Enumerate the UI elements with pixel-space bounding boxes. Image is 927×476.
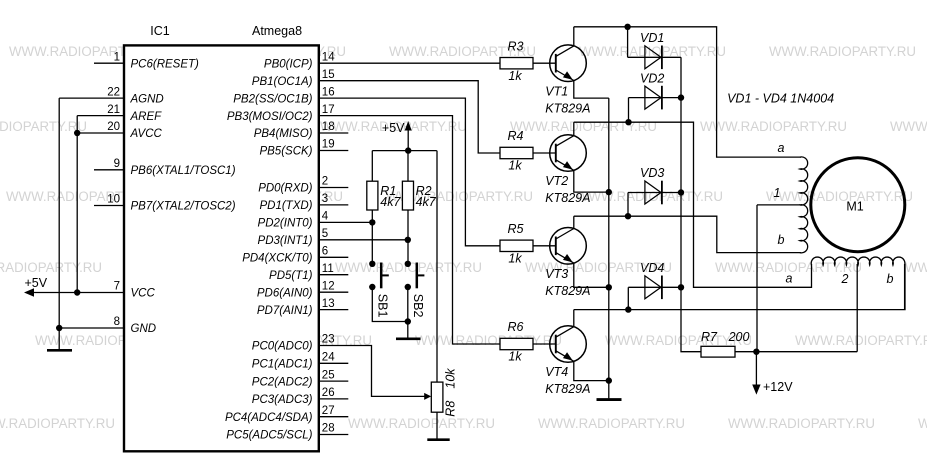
svg-text:11: 11 — [322, 263, 334, 275]
svg-text:27: 27 — [322, 405, 335, 417]
svg-text:25: 25 — [322, 369, 335, 381]
svg-text:14: 14 — [322, 51, 335, 63]
svg-text:17: 17 — [322, 104, 335, 116]
svg-text:26: 26 — [322, 387, 335, 399]
svg-text:R8: R8 — [443, 401, 457, 417]
svg-text:KT829A: KT829A — [545, 382, 590, 396]
svg-text:1: 1 — [774, 186, 781, 200]
svg-text:PB6(XTAL1/TOSC1): PB6(XTAL1/TOSC1) — [131, 165, 236, 177]
svg-text:VD2: VD2 — [640, 71, 664, 85]
svg-text:PC2(ADC2): PC2(ADC2) — [252, 376, 313, 388]
svg-text:20: 20 — [107, 121, 120, 133]
svg-text:WWW.RADIOPARTY.RU: WWW.RADIOPARTY.RU — [348, 416, 495, 432]
svg-text:3: 3 — [322, 193, 328, 205]
svg-text:4k7: 4k7 — [416, 195, 437, 209]
svg-text:5: 5 — [322, 228, 328, 240]
svg-text:b: b — [887, 272, 894, 286]
svg-text:WWW.RADIOPARTY.RU: WWW.RADIOPARTY.RU — [538, 416, 685, 432]
svg-text:VT1: VT1 — [545, 84, 568, 98]
svg-text:PB4(MISO): PB4(MISO) — [254, 128, 313, 140]
svg-text:WWW.RADIOPARTY.RU: WWW.RADIOPARTY.RU — [795, 333, 927, 349]
svg-text:9: 9 — [114, 158, 120, 170]
svg-text:23: 23 — [322, 334, 335, 346]
svg-text:10: 10 — [107, 194, 120, 206]
svg-text:PC3(ADC3): PC3(ADC3) — [252, 394, 313, 406]
svg-text:a: a — [786, 271, 793, 285]
svg-text:PD2(INT0): PD2(INT0) — [258, 218, 313, 230]
svg-text:R5: R5 — [508, 222, 524, 236]
svg-text:WWW.RADIOPARTY.RU: WWW.RADIOPARTY.RU — [0, 260, 102, 276]
svg-text:Atmega8: Atmega8 — [252, 24, 302, 38]
svg-text:PD1(TXD): PD1(TXD) — [259, 200, 312, 212]
svg-text:PB5(SCK): PB5(SCK) — [259, 146, 312, 158]
svg-text:PD5(T1): PD5(T1) — [269, 270, 313, 282]
svg-text:WWW.RADIOPARTY.RU: WWW.RADIOPARTY.RU — [0, 416, 115, 432]
svg-text:KT829A: KT829A — [545, 284, 590, 298]
svg-text:AVCC: AVCC — [130, 128, 163, 140]
svg-text:VT3: VT3 — [545, 267, 568, 281]
svg-text:PD3(INT1): PD3(INT1) — [258, 235, 313, 247]
svg-text:PD0(RXD): PD0(RXD) — [258, 183, 312, 195]
svg-text:VD3: VD3 — [640, 166, 664, 180]
svg-text:VCC: VCC — [131, 288, 156, 300]
svg-text:19: 19 — [322, 139, 335, 151]
svg-text:2: 2 — [841, 272, 849, 286]
svg-text:PC4(ADC4/SDA): PC4(ADC4/SDA) — [225, 412, 313, 424]
svg-text:PC6(RESET): PC6(RESET) — [131, 58, 200, 70]
svg-text:13: 13 — [322, 298, 335, 310]
svg-text:PB2(SS/OC1B): PB2(SS/OC1B) — [233, 93, 312, 105]
svg-text:24: 24 — [322, 352, 335, 364]
svg-text:R3: R3 — [508, 39, 524, 53]
svg-text:GND: GND — [131, 323, 157, 335]
svg-text:15: 15 — [322, 69, 335, 81]
svg-text:18: 18 — [322, 121, 335, 133]
svg-text:SB1: SB1 — [376, 294, 390, 318]
svg-text:PD7(AIN1): PD7(AIN1) — [257, 305, 313, 317]
svg-text:WWW.RADIOPARTY.RU: WWW.RADIOPARTY.RU — [905, 260, 927, 276]
svg-text:WWW.RADIOPARTY.RU: WWW.RADIOPARTY.RU — [700, 119, 847, 135]
svg-text:R6: R6 — [508, 320, 524, 334]
svg-text:SB2: SB2 — [411, 294, 425, 318]
svg-text:WWW.RADIOPARTY.RU: WWW.RADIOPARTY.RU — [766, 189, 913, 205]
svg-text:PC5(ADC5/SCL): PC5(ADC5/SCL) — [226, 430, 312, 442]
svg-text:KT829A: KT829A — [545, 101, 590, 115]
svg-text:PB3(MOSI/OC2): PB3(MOSI/OC2) — [227, 111, 313, 123]
svg-text:IC1: IC1 — [150, 24, 170, 38]
svg-text:1k: 1k — [508, 251, 522, 265]
svg-text:PB1(OC1A): PB1(OC1A) — [252, 76, 313, 88]
svg-text:KT829A: KT829A — [545, 191, 590, 205]
svg-text:M1: M1 — [846, 200, 863, 214]
svg-text:PB0(ICP): PB0(ICP) — [264, 58, 313, 70]
svg-text:1: 1 — [114, 51, 120, 63]
svg-text:VD1: VD1 — [640, 31, 664, 45]
svg-text:4k7: 4k7 — [380, 195, 401, 209]
svg-text:4: 4 — [322, 211, 329, 223]
svg-text:WWW.RADIOPARTY.RU: WWW.RADIOPARTY.RU — [769, 44, 916, 60]
svg-text:+12V: +12V — [763, 380, 793, 394]
svg-text:+5V: +5V — [25, 276, 48, 290]
svg-text:10k: 10k — [443, 368, 457, 389]
svg-text:1k: 1k — [508, 69, 522, 83]
svg-text:VD4: VD4 — [640, 261, 664, 275]
svg-text:WWW.RADIOPARTY.RU: WWW.RADIOPARTY.RU — [728, 416, 875, 432]
svg-text:WWW.RADIOPARTY.RU: WWW.RADIOPARTY.RU — [576, 189, 723, 205]
svg-text:22: 22 — [107, 86, 120, 98]
svg-text:WWW.RADIOPARTY.RU: WWW.RADIOPARTY.RU — [890, 119, 927, 135]
svg-text:b: b — [778, 233, 785, 247]
svg-text:VT4: VT4 — [545, 365, 568, 379]
svg-text:WWW.RADIOPARTY.RU: WWW.RADIOPARTY.RU — [510, 119, 657, 135]
svg-text:8: 8 — [114, 316, 120, 328]
svg-text:WWW.RADIOPARTY.RU: WWW.RADIOPARTY.RU — [0, 119, 87, 135]
svg-text:12: 12 — [322, 280, 335, 292]
svg-text:R7: R7 — [701, 330, 718, 344]
svg-text:PB7(XTAL2/TOSC2): PB7(XTAL2/TOSC2) — [131, 201, 236, 213]
svg-text:6: 6 — [322, 246, 328, 258]
svg-text:+5V: +5V — [382, 121, 405, 135]
svg-text:21: 21 — [107, 104, 120, 116]
svg-text:VT2: VT2 — [545, 174, 568, 188]
svg-text:1k: 1k — [508, 159, 522, 173]
svg-text:AGND: AGND — [130, 93, 164, 105]
svg-text:PD4(XCK/T0): PD4(XCK/T0) — [242, 253, 312, 265]
svg-text:a: a — [778, 141, 785, 155]
svg-text:R4: R4 — [508, 129, 524, 143]
svg-text:2: 2 — [322, 176, 328, 188]
svg-text:28: 28 — [322, 423, 335, 435]
svg-text:WWW.RADIOPARTY.RU: WWW.RADIOPARTY.RU — [918, 416, 927, 432]
svg-text:1k: 1k — [508, 350, 522, 364]
svg-text:VD1 - VD4 1N4004: VD1 - VD4 1N4004 — [727, 92, 834, 106]
svg-text:PC0(ADC0): PC0(ADC0) — [252, 341, 313, 353]
svg-text:PC1(ADC1): PC1(ADC1) — [252, 359, 313, 371]
svg-text:AREF: AREF — [130, 111, 163, 123]
svg-text:PD6(AIN0): PD6(AIN0) — [257, 287, 313, 299]
svg-text:200: 200 — [728, 330, 750, 344]
svg-text:7: 7 — [114, 281, 120, 293]
svg-text:16: 16 — [322, 86, 335, 98]
